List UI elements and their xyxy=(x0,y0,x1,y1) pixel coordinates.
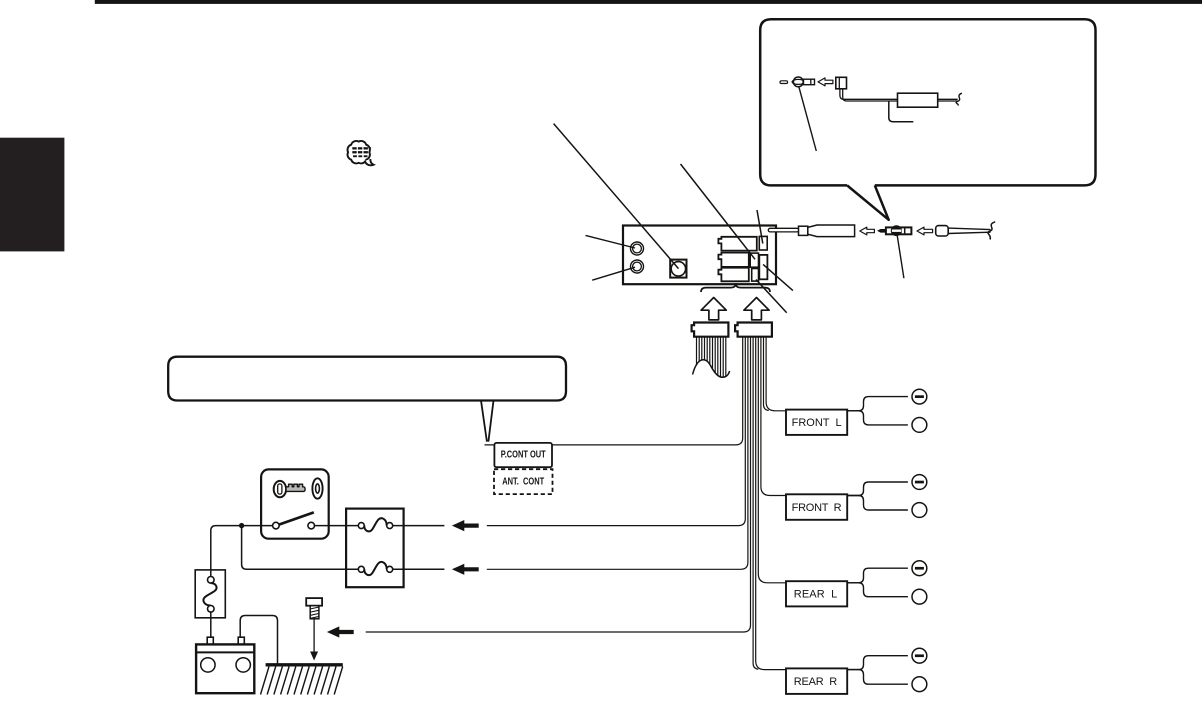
FRONT L fork xyxy=(847,397,908,411)
screw thread lines xyxy=(311,607,319,618)
tall connector right xyxy=(759,255,767,279)
antenna plug nut xyxy=(793,77,803,87)
callout balloon top right xyxy=(760,19,1095,185)
ignition switch box xyxy=(261,469,329,538)
page edge tab xyxy=(0,138,64,252)
wire switch to fuse1 xyxy=(314,525,358,527)
wire bundle filler xyxy=(753,337,758,670)
key shaft xyxy=(286,484,305,491)
small connector mid xyxy=(750,253,758,267)
wire FRONT R xyxy=(761,337,787,496)
REAR L terminal minus xyxy=(912,561,927,576)
arrow battery xyxy=(452,564,479,575)
FRONT L terminal plus xyxy=(912,418,927,433)
mounting screw head xyxy=(306,598,322,606)
fuse holder xyxy=(195,570,225,618)
ISO connector block 2 xyxy=(718,253,748,267)
svg-text:P.CONT OUT: P.CONT OUT xyxy=(501,450,546,461)
wire battery plus up and over xyxy=(240,616,277,664)
small connector bottom xyxy=(752,269,759,282)
top rule bar xyxy=(95,0,1202,4)
FRONT R fork xyxy=(847,482,908,496)
up arrow 2 xyxy=(744,298,769,320)
keyhole xyxy=(312,478,322,498)
fuse 2 xyxy=(358,566,364,572)
wiring harness plug B xyxy=(735,323,772,337)
fuse 1 xyxy=(358,523,364,529)
plug A wire cut wave xyxy=(693,360,730,378)
right-angle antenna plug xyxy=(836,77,847,89)
battery terminal right xyxy=(238,637,244,644)
wire bundle filler 2 xyxy=(764,337,769,411)
FRONT L box xyxy=(786,410,847,435)
instruction balloon left xyxy=(168,357,566,401)
screw pointer line xyxy=(313,619,315,653)
antenna jack square xyxy=(670,260,686,278)
ground lead drop wire xyxy=(889,101,914,122)
svg-text:ANT. CONT: ANT. CONT xyxy=(502,477,544,488)
REAR L box xyxy=(786,581,847,606)
antenna joint pin xyxy=(877,229,886,233)
switch contact left xyxy=(273,522,280,529)
wire fuse holder to battery xyxy=(210,609,212,637)
svg-text:REAR R: REAR R xyxy=(794,676,838,688)
leader to small connector mid xyxy=(681,164,756,259)
battery terminal left xyxy=(207,637,213,644)
head unit (rear view) xyxy=(623,226,776,285)
screw shaft xyxy=(310,606,319,619)
REAR R terminal plus xyxy=(912,677,927,692)
REAR R fork xyxy=(847,656,908,670)
P.CONT OUT box xyxy=(494,443,552,467)
battery cell 2 xyxy=(236,658,250,672)
wire fuse1 out xyxy=(393,525,445,527)
REAR R terminal minus xyxy=(912,648,927,663)
FRONT R terminal plus xyxy=(912,503,927,518)
RCA jack 2 xyxy=(631,260,644,273)
arrow ACC xyxy=(452,520,479,531)
antenna plug ferrule xyxy=(799,226,808,235)
REAR R box xyxy=(786,668,847,694)
brace under connectors xyxy=(701,283,770,292)
battery cell 1 xyxy=(201,658,215,672)
chassis ground bar xyxy=(266,663,343,666)
plug A wires xyxy=(697,337,726,378)
car antenna cable cap xyxy=(936,226,949,236)
wire junction to fuse2 xyxy=(242,526,359,570)
svg-text:REAR L: REAR L xyxy=(794,589,838,601)
REAR L terminal plus xyxy=(912,589,927,604)
insert arrow (balloon) xyxy=(818,78,833,86)
ISO connector block 3 xyxy=(718,268,748,282)
RCA jack 1 xyxy=(631,242,644,255)
leader to RCA jack 1 xyxy=(586,235,636,248)
balloon tail xyxy=(481,401,494,442)
leader from antenna plug xyxy=(799,87,817,151)
harness wires xyxy=(366,337,787,670)
wiring harness plug A xyxy=(692,323,729,337)
antenna plug body xyxy=(804,79,815,85)
car antenna cable rod xyxy=(948,228,990,230)
leader from antenna joint xyxy=(897,236,904,278)
fuse box xyxy=(346,509,404,588)
battery body xyxy=(196,644,254,693)
noise filter box xyxy=(898,93,938,107)
antenna joint body xyxy=(886,227,912,234)
leader from bottom connector xyxy=(756,280,787,313)
antenna plug (in balloon) pin xyxy=(780,81,788,84)
antenna lead wire xyxy=(768,228,799,232)
FRONT R terminal minus xyxy=(912,475,927,490)
ISO connector block 1 xyxy=(718,237,756,251)
FRONT L terminal minus xyxy=(912,389,927,404)
wire REAR R xyxy=(756,337,787,670)
wire P.CONT xyxy=(485,337,743,445)
svg-text:FRONT R: FRONT R xyxy=(792,502,842,514)
REAR L fork xyxy=(847,568,908,583)
wire battery xyxy=(487,337,748,570)
switch lever xyxy=(279,512,314,524)
wire ground xyxy=(366,337,751,632)
up arrow 1 xyxy=(701,298,726,320)
antenna extension cable xyxy=(840,89,898,100)
ground hatching xyxy=(261,667,343,695)
wire FRONT L xyxy=(766,337,786,411)
FRONT R box xyxy=(786,494,847,520)
insert arrow 1 xyxy=(860,227,875,235)
antenna plug body xyxy=(808,225,855,237)
arrow ground xyxy=(327,626,354,637)
speaker forks xyxy=(847,397,908,685)
junction dot xyxy=(239,523,244,528)
wire fuse2 out xyxy=(393,568,445,570)
wire REAR L xyxy=(758,337,786,583)
wire key to fuse xyxy=(211,526,273,577)
wire ACC xyxy=(487,337,746,526)
beep icon (speech cloud) xyxy=(348,141,374,165)
small connector top right xyxy=(759,236,767,250)
insert arrow 2 xyxy=(917,227,933,235)
svg-text:FRONT L: FRONT L xyxy=(792,417,842,429)
leader to antenna jack xyxy=(554,124,679,269)
switch contact right xyxy=(308,522,315,529)
filter output lead xyxy=(938,98,958,100)
lead break squiggle xyxy=(956,93,962,105)
screw pointer arrowhead xyxy=(310,652,318,661)
leader to RCA jack 2 xyxy=(592,267,635,280)
ACC feed wires around ignition xyxy=(211,526,445,664)
key bow xyxy=(274,481,286,497)
rod break squiggle xyxy=(988,222,995,240)
callout balloon tail xyxy=(847,185,889,219)
ANT. CONT box xyxy=(494,469,553,494)
leader to small connector top xyxy=(757,210,763,244)
leader from tall connector xyxy=(763,264,793,290)
